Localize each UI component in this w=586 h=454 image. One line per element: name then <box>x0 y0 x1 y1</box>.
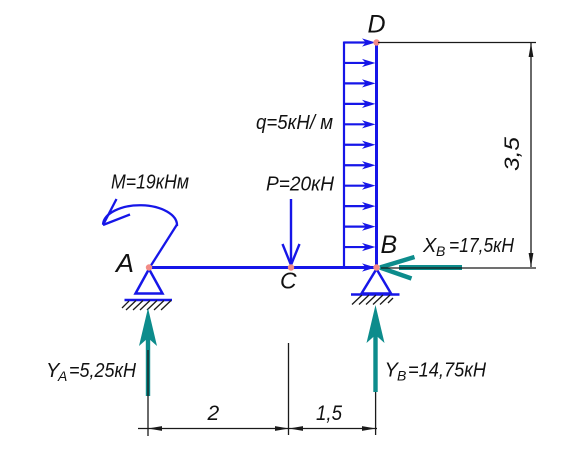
svg-text:A: A <box>57 368 67 384</box>
dim arrow left from C <box>289 426 303 431</box>
svg-text:С: С <box>280 268 297 294</box>
column BD <box>375 42 378 268</box>
support A ground line <box>125 299 173 302</box>
svg-text:1,5: 1,5 <box>316 402 342 425</box>
svg-text:X: X <box>422 235 437 257</box>
dim arrow left at A <box>148 426 162 431</box>
distributed load q box left edge <box>343 42 345 268</box>
svg-text:В: В <box>381 231 398 259</box>
dimension 3,5 top arrow <box>529 43 534 57</box>
svg-text:М=19кНм: М=19кНм <box>111 172 189 194</box>
node C dot <box>288 264 294 270</box>
node A pin dot <box>146 264 152 270</box>
dimension extension line at C <box>288 343 290 435</box>
reaction XB arrow <box>380 257 462 279</box>
dimension extension line at A <box>147 350 149 436</box>
svg-text:B: B <box>436 243 445 259</box>
support A triangle (roller) <box>136 269 163 294</box>
dimension extension line at B <box>375 392 377 435</box>
svg-text:q=5кН/ м: q=5кН/ м <box>256 112 333 134</box>
dimension 3,5 bottom arrow <box>529 253 534 267</box>
dimension 3,5 vertical line <box>530 43 532 267</box>
bottom dimension line <box>138 428 377 430</box>
svg-text:=5,25кН: =5,25кН <box>69 360 136 382</box>
dim arrow right at B <box>362 426 376 431</box>
svg-text:2: 2 <box>207 402 220 425</box>
moment M arc <box>103 205 177 226</box>
node D dot <box>373 39 379 45</box>
support B triangle (pin) <box>362 269 392 294</box>
moment M arrowhead <box>103 199 130 225</box>
svg-text:Р=20кН: Р=20кН <box>266 174 335 196</box>
svg-text:=14,75кН: =14,75кН <box>408 360 486 382</box>
svg-text:3,5: 3,5 <box>501 137 524 171</box>
dim arrow right toward C <box>275 426 289 431</box>
svg-text:А: А <box>114 248 134 278</box>
moment M lever line <box>150 225 177 268</box>
reaction YA arrow <box>139 308 157 396</box>
support B hatching <box>352 295 393 305</box>
dimension 3,5 top extension line <box>378 42 536 44</box>
force P arrow <box>283 199 300 265</box>
beam AB <box>149 266 377 269</box>
node B pin dot <box>373 264 379 270</box>
svg-text:=17,5кН: =17,5кН <box>449 235 514 257</box>
reaction YB arrow <box>367 305 385 392</box>
dimension 3,5 bottom extension line <box>381 267 536 269</box>
support A hatching <box>122 301 171 311</box>
svg-text:D: D <box>368 11 386 39</box>
support B ground line <box>351 293 400 296</box>
svg-text:B: B <box>397 368 406 384</box>
